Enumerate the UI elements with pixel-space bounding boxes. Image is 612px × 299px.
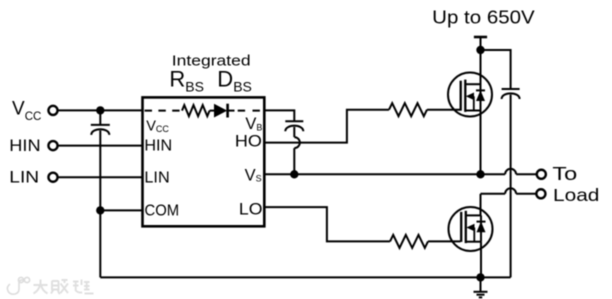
svg-text:VB: VB [245, 115, 262, 133]
svg-text:To: To [552, 164, 577, 184]
wire HIN terminal to IC [58, 145, 142, 147]
node bottom rail junction dot [476, 273, 484, 281]
node VCC junction dot [96, 106, 104, 114]
transistor Q1 high-side MOSFET [448, 73, 492, 117]
power supply bar Up to 650V [474, 36, 487, 39]
svg-text:COM: COM [145, 203, 180, 220]
wire COM junction down to bottom rail [99, 210, 101, 277]
wire Load hop over bus-cap branch [505, 188, 516, 193]
node To output terminal [537, 170, 546, 179]
node LIN input terminal [48, 173, 57, 182]
wire hop over HO wire [294, 137, 300, 148]
wire VS hop over bus-cap branch [505, 169, 516, 175]
wire DBS to dashes [227, 110, 234, 112]
transistor Q2 low-side MOSFET [449, 207, 493, 251]
node VCC input terminal [48, 106, 57, 115]
node bootstrap-VS junction dot [290, 170, 298, 178]
resistor R1 (high-side gate) [389, 103, 427, 116]
svg-text:Up to 650V: Up to 650V [432, 7, 535, 28]
capacitor C3 bus curved plate [502, 93, 520, 99]
node COM junction dot [96, 206, 104, 214]
wire supply to bus cap branch [481, 50, 511, 89]
wire LIN terminal to IC [58, 176, 142, 178]
svg-text:HIN: HIN [9, 136, 40, 155]
svg-text:VCC: VCC [146, 118, 169, 134]
wire VS rail from pin [265, 173, 506, 175]
svg-text:LIN: LIN [9, 168, 39, 187]
svg-text:VCC: VCC [12, 98, 41, 123]
wire VS hop to To terminal [516, 173, 537, 175]
node Load output terminal [536, 189, 545, 198]
wire RBS to DBS [210, 110, 214, 112]
svg-text:VS: VS [245, 167, 262, 185]
svg-text:LIN: LIN [144, 169, 169, 186]
watermark logo [7, 277, 29, 294]
capacitor C3 bus straight plate [502, 88, 520, 90]
wire Q1 drain to supply [480, 50, 482, 85]
wire COM pin to junction [100, 209, 142, 211]
wire VCC terminal to IC [58, 109, 142, 111]
resistor R2 (low-side gate) [390, 235, 428, 248]
diode DBS cathode bar [226, 104, 229, 118]
diode DBS anode triangle [214, 104, 227, 118]
ground [474, 277, 488, 297]
wire dashed RBS link left [145, 110, 182, 112]
wire R1 to Q1 gate [427, 109, 460, 111]
wire Q2 drain to Load tap [480, 194, 482, 216]
wire LO gate drive [265, 207, 391, 241]
wire hop to VS rail [293, 148, 295, 174]
wire Q1 source to VS [480, 111, 482, 175]
node HIN input terminal [48, 141, 57, 150]
wire Load terminal to lower drain [481, 193, 506, 195]
wire HO gate drive [265, 110, 390, 143]
wire Q2 source to bottom rail [480, 242, 482, 278]
capacitor C2 bootstrap curved plate [285, 126, 303, 132]
watermark text [34, 280, 94, 295]
capacitor C1 straight plate [91, 124, 110, 126]
capacitor C2 bootstrap straight plate [285, 120, 303, 122]
node upper-source VS junction dot [476, 170, 484, 178]
wire supply stem [480, 37, 482, 50]
wire bottom rail [100, 276, 510, 278]
wire VB pin to bootstrap cap [265, 110, 295, 121]
wire C2 bottom to hop [293, 127, 295, 137]
wire dashed DBS link right [238, 110, 262, 112]
svg-text:HO: HO [235, 133, 262, 151]
wire Load hop to Load terminal [516, 193, 536, 195]
svg-text:LO: LO [239, 200, 263, 218]
node supply junction dot [476, 46, 484, 54]
capacitor C1 curved plate [91, 129, 109, 135]
wire R2 to Q2 gate [428, 240, 461, 242]
capacitor C1 (VCC decoupling) top lead [99, 110, 101, 125]
IC U1 gate-driver box [143, 97, 265, 226]
resistor RBS [182, 105, 210, 116]
svg-text:HIN: HIN [144, 138, 172, 155]
svg-text:Load: Load [553, 185, 599, 205]
svg-text:RBS: RBS [169, 67, 204, 95]
wire C1 bottom down to COM node [99, 131, 101, 211]
svg-text:DBS: DBS [217, 67, 252, 95]
wire C3 bottom down to bottom rail [510, 95, 512, 278]
